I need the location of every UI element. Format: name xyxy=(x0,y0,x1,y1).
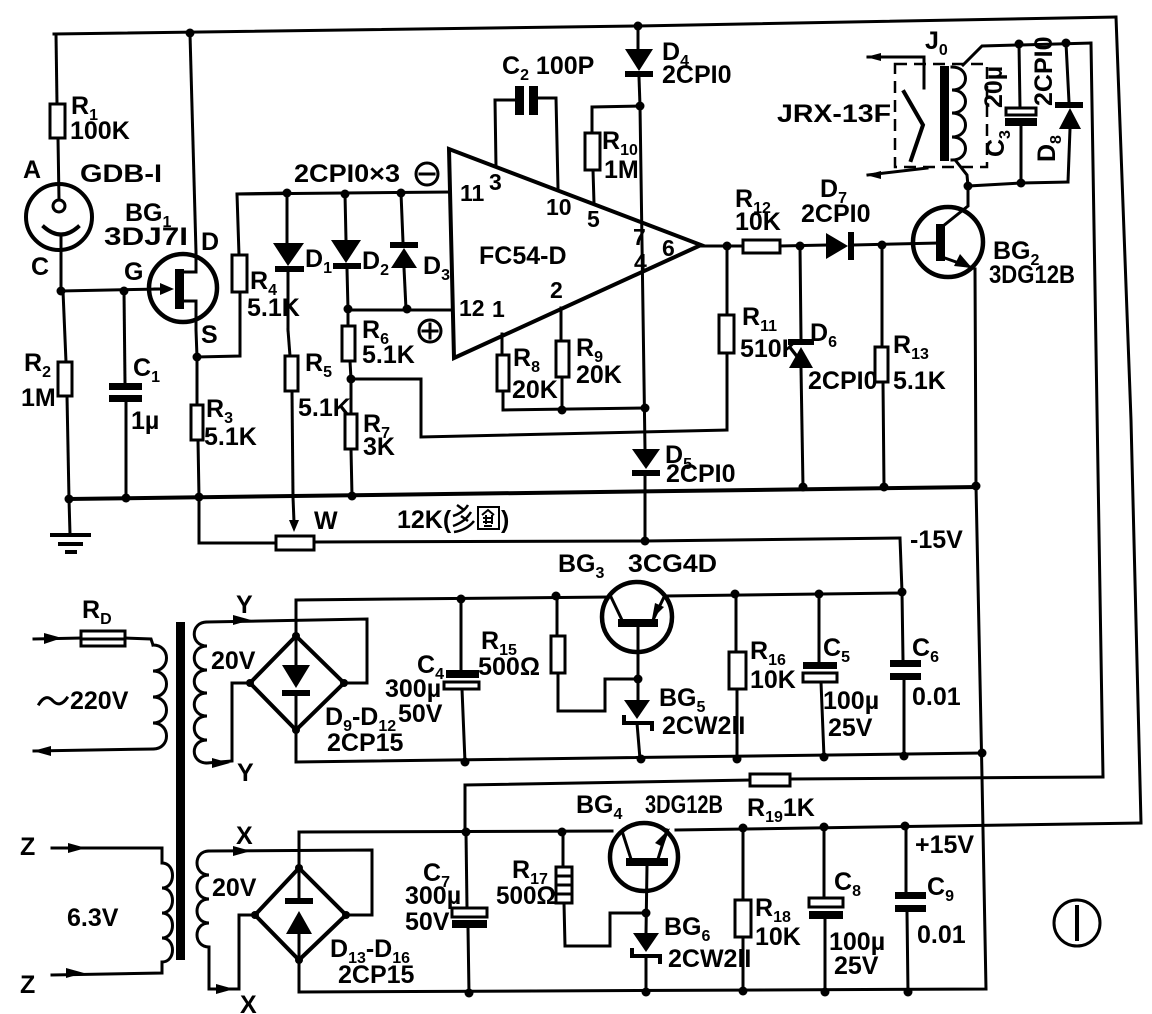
svg-text:GDB-I: GDB-I xyxy=(80,160,162,188)
relay contact top lead xyxy=(866,53,924,88)
resistor R19 1K xyxy=(465,774,1103,832)
svg-text:0.01: 0.01 xyxy=(917,921,966,949)
node junction D2 top xyxy=(341,190,350,199)
svg-text:5.1K: 5.1K xyxy=(204,423,257,451)
svg-text:6: 6 xyxy=(662,235,675,261)
wire inverting input rail xyxy=(237,192,450,194)
resistor R9 20K xyxy=(556,308,622,410)
resistor R6 xyxy=(342,309,415,379)
bridge rectifier D13-D16 2CP15 xyxy=(251,864,415,989)
wire R2 to ground rail xyxy=(67,396,69,499)
svg-text:D: D xyxy=(201,228,219,256)
wire R1 to phototube anode xyxy=(58,138,59,200)
op-amp U FC54-D xyxy=(449,149,701,358)
resistor R17 500ohm xyxy=(496,832,646,946)
node junction D5 top xyxy=(641,404,650,413)
svg-text:1M: 1M xyxy=(604,156,639,184)
text 2CP10x3 xyxy=(294,160,400,188)
wire right rail from coil top down to R19 xyxy=(1091,43,1103,777)
diode D8 2CP10 xyxy=(1030,37,1083,182)
svg-text:-15V: -15V xyxy=(910,526,963,554)
node junction C7 bottom xyxy=(465,989,474,998)
node junction R18 bottom xyxy=(739,987,748,996)
wire D1 into R5 xyxy=(288,330,290,356)
node junction C9 top xyxy=(901,822,910,831)
node junction C3 bottom xyxy=(1017,179,1026,188)
node junction C4 bottom xyxy=(461,758,470,767)
node junction C1 top xyxy=(120,287,129,296)
svg-text:W: W xyxy=(314,507,338,535)
capacitor C8 100u 25V xyxy=(809,827,885,992)
svg-text:4: 4 xyxy=(634,249,647,275)
svg-text:5.1K: 5.1K xyxy=(893,367,946,395)
wire collector bus to D8 xyxy=(968,182,1068,186)
capacitor C9 0.01 xyxy=(895,826,966,992)
phototube GDB-1 xyxy=(23,156,162,281)
node minus input symbol xyxy=(416,163,438,185)
svg-text:10K: 10K xyxy=(735,208,781,236)
wire Z bottom lead xyxy=(20,962,162,999)
wire gate horizontal xyxy=(61,289,160,291)
wire noninverting input rail xyxy=(348,309,452,312)
svg-text:1M: 1M xyxy=(21,384,56,412)
svg-text:10K: 10K xyxy=(750,666,796,694)
wire secondary X bottom lead xyxy=(209,915,257,1014)
wire R8 R9 bottom bus xyxy=(503,391,645,410)
wire BG4 base down xyxy=(646,866,647,933)
svg-text:5.1K: 5.1K xyxy=(298,394,351,422)
resistor R12 10K xyxy=(735,185,781,253)
svg-text:5.1K: 5.1K xyxy=(247,294,300,322)
svg-text:50V: 50V xyxy=(398,700,443,728)
svg-text:2CW2lI: 2CW2lI xyxy=(662,712,745,740)
transformer secondary X winding xyxy=(197,851,257,947)
node junction BG5 bottom xyxy=(637,755,646,764)
resistor R1 xyxy=(50,92,130,145)
svg-text:2: 2 xyxy=(550,277,563,303)
wire bridge1 minus to mid bottom rail xyxy=(296,730,982,762)
wire R5 down to wiper xyxy=(292,391,293,497)
bridge rectifier D9-D12 2CP15 xyxy=(246,632,404,757)
svg-text:C2 100P: C2 100P xyxy=(502,52,594,84)
wire R4 up to inverting input rail xyxy=(237,193,287,255)
wire bridge1 plus to mid top rail xyxy=(296,597,609,636)
node junction R6 top xyxy=(344,305,353,314)
wire R3 branch xyxy=(196,357,199,405)
node junction C8 top xyxy=(820,823,829,832)
node junction BG3 base R15 xyxy=(634,675,643,684)
node junction R18 top xyxy=(739,824,748,833)
capacitor C7 300u 50V xyxy=(405,832,487,993)
transformer primary winding 220V xyxy=(153,645,167,749)
resistor R4 xyxy=(232,255,300,322)
wire source to R4 branch xyxy=(197,292,240,357)
diode D5 2CP10 xyxy=(632,441,735,541)
wire coil bottom to BG2 collector xyxy=(956,161,968,186)
svg-text:3DJ7I: 3DJ7I xyxy=(104,223,188,251)
text 220V source xyxy=(39,687,129,715)
node junction ground at C1 xyxy=(122,494,131,503)
svg-text:12: 12 xyxy=(459,295,485,321)
node junction mid rail end xyxy=(978,749,987,758)
svg-text:2CPI0: 2CPI0 xyxy=(808,367,877,395)
resistor R16 10K xyxy=(729,594,796,759)
diode D1 2CP10 xyxy=(273,193,332,330)
node junction D6 ground xyxy=(799,483,808,492)
svg-text:Y: Y xyxy=(237,759,254,787)
svg-text:25V: 25V xyxy=(828,714,873,742)
svg-text:X: X xyxy=(236,822,253,850)
transistor BG1 3DJ7I JFET xyxy=(104,34,219,357)
wire ground rail xyxy=(69,487,976,499)
svg-text:500Ω: 500Ω xyxy=(496,882,556,910)
node junction D3 bottom xyxy=(403,305,412,314)
capacitor C6 0.01 xyxy=(890,592,961,756)
node junction R17 top xyxy=(558,828,567,837)
node plus input symbol xyxy=(419,320,441,342)
relay contact arm xyxy=(904,92,923,160)
node junction R13 ground xyxy=(880,483,889,492)
wire primary bottom lead xyxy=(33,746,153,756)
svg-text:1µ: 1µ xyxy=(131,407,159,435)
node junction C8 bottom xyxy=(821,988,830,997)
svg-text:3K: 3K xyxy=(363,433,395,461)
wire mid top rail right part xyxy=(665,593,903,596)
wire R12 to D7 xyxy=(780,245,826,246)
ground xyxy=(52,499,89,552)
node junction ground end at emitter xyxy=(972,482,981,491)
wire R2 branch xyxy=(63,291,66,362)
wire secondary X top lead xyxy=(209,822,372,915)
resistor R2 xyxy=(21,349,72,412)
svg-text:C: C xyxy=(31,253,49,281)
wire D4 node down through op-amp to D5 xyxy=(640,106,645,449)
node junction C3 top xyxy=(1015,40,1024,49)
node junction ground at R7 xyxy=(348,492,357,501)
svg-text:0.01: 0.01 xyxy=(912,683,961,711)
resistor R13 5.1K xyxy=(875,245,946,487)
diode D2 2CP10 xyxy=(331,194,389,309)
diode D3 2CP10 reversed xyxy=(390,193,450,309)
wire bridge2 minus to bottom rail xyxy=(299,486,986,992)
svg-text:Z: Z xyxy=(20,971,35,999)
wire W pot to -15V corner xyxy=(314,538,900,542)
svg-text:A: A xyxy=(23,156,41,184)
wire bridge2 plus to plus rail xyxy=(299,831,612,868)
figure number circled 1 xyxy=(1054,900,1100,946)
node junction top rail at D4 xyxy=(634,22,643,31)
resistor R7 xyxy=(345,379,395,496)
node junction BG6 bottom xyxy=(642,988,651,997)
wire coil top lead xyxy=(963,43,1091,65)
node junction R2 top xyxy=(57,287,66,296)
svg-text:2CW2lI: 2CW2lI xyxy=(668,945,751,973)
wire plus rail right part xyxy=(676,823,1141,830)
node junction D6 branch xyxy=(796,242,805,251)
node junction C5 top xyxy=(815,590,824,599)
wire right edge rail from top corner down to +15V rail xyxy=(1116,17,1141,823)
node junction R10 D4 xyxy=(636,102,645,111)
transistor BG3 3CG4D xyxy=(558,550,717,652)
resistor R8 20K xyxy=(497,334,558,404)
relay contact bottom lead xyxy=(866,168,927,179)
transformer core xyxy=(176,622,185,960)
wire negative rail to W pot xyxy=(199,497,276,543)
node junction C4 top xyxy=(457,595,466,604)
svg-text:2CP15: 2CP15 xyxy=(327,729,404,757)
svg-text:JRX-13F: JRX-13F xyxy=(777,100,891,128)
svg-text:G: G xyxy=(124,258,143,286)
node junction coil collector xyxy=(964,182,973,191)
svg-text:20K: 20K xyxy=(576,361,622,389)
svg-text:3DG12B: 3DG12B xyxy=(989,261,1075,289)
wire R6R7 node to feedback xyxy=(351,379,727,437)
node junction R16 top xyxy=(731,590,740,599)
svg-text:300µ: 300µ xyxy=(405,882,461,910)
text 12K multiturn label xyxy=(397,505,509,534)
diode D4 2CP10 xyxy=(625,26,731,106)
svg-text:500Ω: 500Ω xyxy=(478,653,540,681)
svg-text:6.3V: 6.3V xyxy=(67,904,119,932)
node junction R16 bottom xyxy=(733,755,742,764)
svg-text:3CG4D: 3CG4D xyxy=(628,550,717,578)
zener BG5 2CW21 xyxy=(624,684,745,759)
resistor R15 500ohm xyxy=(478,596,638,711)
svg-text:3: 3 xyxy=(489,169,502,195)
node junction D5 at W wire xyxy=(641,537,650,546)
wire BG3 base down xyxy=(637,627,640,700)
relay coil core bar xyxy=(940,66,949,161)
wire RD to primary xyxy=(125,638,153,645)
node junction C6 top minus15 xyxy=(898,588,907,597)
node junction ground at R2 xyxy=(65,495,74,504)
node junction top rail at BG1 drain xyxy=(186,29,195,38)
node junction BG4 base R17 xyxy=(642,909,651,918)
svg-text:11: 11 xyxy=(460,180,485,206)
wire R3 to ground rail xyxy=(198,440,199,497)
transistor BG2 3DG12B xyxy=(913,186,1075,486)
svg-text:FC54-D: FC54-D xyxy=(479,242,567,270)
svg-text:3DG12B: 3DG12B xyxy=(645,791,723,819)
svg-text:Y: Y xyxy=(236,591,253,619)
node junction C9 bottom xyxy=(904,988,913,997)
node junction source node xyxy=(193,353,202,362)
svg-text:2CP15: 2CP15 xyxy=(338,961,415,989)
svg-text:2CPI0×3: 2CPI0×3 xyxy=(294,160,400,188)
svg-text:2CPI0: 2CPI0 xyxy=(666,460,735,488)
transistor BG4 3DG12B xyxy=(576,791,723,891)
svg-text:2CPI0: 2CPI0 xyxy=(1030,37,1058,106)
svg-text:50V: 50V xyxy=(405,908,450,936)
node junction ground at R3 xyxy=(195,493,204,502)
capacitor C1 xyxy=(109,291,160,498)
wire minus15 corner from W wire xyxy=(900,526,963,592)
svg-text:10: 10 xyxy=(546,194,572,220)
wire Z top lead xyxy=(20,833,162,863)
svg-text:Z: Z xyxy=(20,833,35,861)
svg-text:20K: 20K xyxy=(512,376,558,404)
wire secondary Y top lead xyxy=(207,591,367,683)
wire top supply rail xyxy=(54,17,1116,34)
svg-text:): ) xyxy=(501,506,509,534)
svg-text:S: S xyxy=(201,321,218,349)
node junction R13 branch xyxy=(878,241,887,250)
wire R1 branch xyxy=(56,34,57,104)
svg-text:300µ: 300µ xyxy=(385,675,441,703)
svg-text:20µ: 20µ xyxy=(980,66,1008,108)
svg-text:220V: 220V xyxy=(70,687,129,715)
diode D6 2CP10 xyxy=(788,246,877,487)
node junction D3 top xyxy=(397,189,406,198)
svg-text:2CPI0: 2CPI0 xyxy=(801,200,870,228)
svg-text:10K: 10K xyxy=(755,923,801,951)
capacitor C2 100P xyxy=(495,52,594,188)
resistor R10 1M xyxy=(585,106,640,203)
resistor R18 10K xyxy=(735,828,801,991)
node junction C6 bottom xyxy=(900,752,909,761)
svg-text:X: X xyxy=(240,991,257,1014)
resistor R3 xyxy=(191,395,257,451)
capacitor C5 100u 25V xyxy=(803,594,879,757)
node junction C5 bottom xyxy=(820,753,829,762)
potentiometer W 12K xyxy=(276,507,338,550)
svg-text:20V: 20V xyxy=(212,874,257,902)
node junction R9 bottom xyxy=(558,406,567,415)
svg-text:20V: 20V xyxy=(211,647,256,675)
svg-text:1: 1 xyxy=(492,296,505,322)
svg-text:5: 5 xyxy=(587,206,600,232)
relay J0 JRX-13F dashed box xyxy=(777,27,987,167)
capacitor C4 300u 50V xyxy=(385,599,479,762)
svg-text:12K(: 12K( xyxy=(397,506,452,534)
resistor R11 510K xyxy=(719,246,800,430)
resistor R5 xyxy=(285,349,351,422)
svg-text:2CPI0: 2CPI0 xyxy=(662,61,731,89)
fuse RD xyxy=(34,596,125,646)
transformer secondary Y winding xyxy=(194,622,256,763)
svg-text:7: 7 xyxy=(633,224,646,250)
svg-text:100µ: 100µ xyxy=(823,687,879,715)
wire op-amp output xyxy=(701,245,743,248)
transformer winding 6.3V xyxy=(67,863,173,962)
node junction R15 top xyxy=(552,592,561,601)
node junction R11 branch xyxy=(723,242,732,251)
wire secondary Y bottom lead xyxy=(207,683,254,787)
svg-text:5.1K: 5.1K xyxy=(362,341,415,369)
wire W wiper from R5 xyxy=(289,497,299,532)
capacitor C3 20u xyxy=(980,44,1037,183)
node junction D1 top xyxy=(283,189,292,198)
node junction C7 top xyxy=(462,828,471,837)
svg-text:25V: 25V xyxy=(834,952,879,980)
svg-text:+15V: +15V xyxy=(915,831,974,859)
relay coil winding xyxy=(952,67,966,160)
wire phototube cathode down to gate node xyxy=(60,237,63,291)
node junction R6 R7 xyxy=(347,375,356,384)
zener BG6 2CW21 xyxy=(632,913,751,992)
text +15V xyxy=(915,831,974,859)
svg-text:100K: 100K xyxy=(70,117,130,145)
diode D7 2CP10 xyxy=(801,175,938,260)
node junction D8 top xyxy=(1062,39,1071,48)
